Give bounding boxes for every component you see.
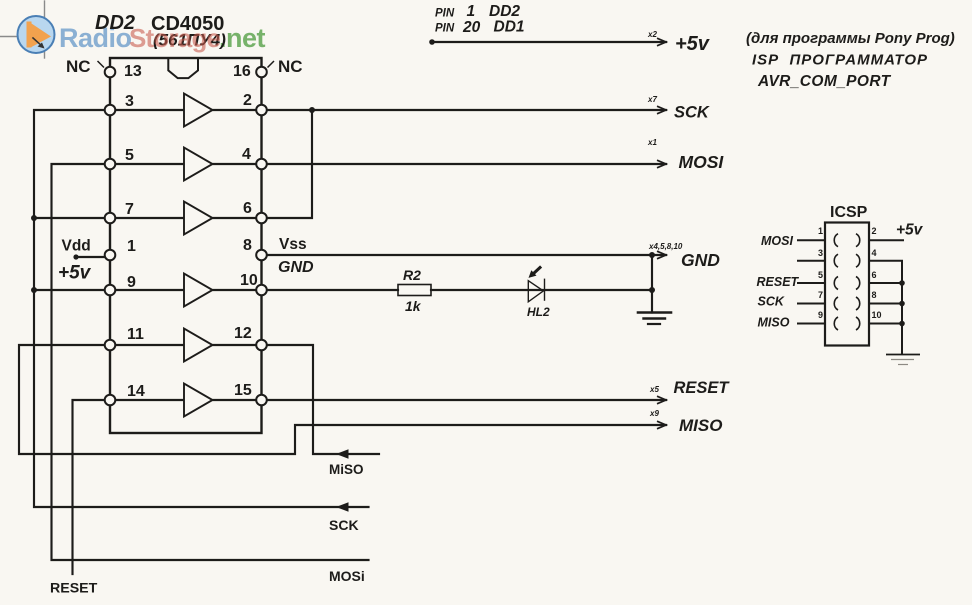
svg-text:5: 5 [125,147,134,164]
logo transistor symbol [0,1,55,58]
arrow MISO stub left [336,449,349,459]
svg-text:ICSP: ICSP [830,204,868,221]
pin 14 circle [105,395,116,406]
svg-text:RESET: RESET [50,581,98,597]
svg-text:NC: NC [278,57,303,76]
svg-text:DD1: DD1 [494,19,525,36]
wire Vdd stub [76,256,110,258]
ICSP stub MOSI pin1 [797,239,825,241]
wire pin11 to MISO lower run [19,345,666,454]
svg-text:+5v: +5v [896,222,924,239]
pin 9 circle [105,285,116,296]
svg-text:x2: x2 [647,30,657,39]
pin 11 circle [105,340,116,351]
svg-text:8: 8 [872,290,877,300]
ICSP wire pins 4,6,8,10 to ground [869,261,902,355]
ICSP junction pin10 [899,321,905,327]
svg-text:4: 4 [872,248,877,258]
ICSP connector J1 [797,204,920,365]
svg-text:20: 20 [462,19,481,36]
ICSP pin 6 contact [856,277,860,290]
svg-text:NC: NC [66,57,91,76]
wire pins 9-10 row [110,289,262,291]
ICSP stub MISO pin9 [797,323,825,325]
svg-text:MOSI: MOSI [761,234,793,248]
svg-text:1: 1 [127,238,136,255]
pin 8 circle [256,250,267,261]
ICSP stub +5v pin2 [869,239,904,241]
svg-text:3: 3 [125,93,134,110]
pin 2 circle [256,105,267,116]
wire resistor to LED [431,289,652,291]
IC U1 CD4050 chip body [110,58,262,433]
wire pin8 to GND arrow [262,254,667,256]
ICSP stub SCK pin7 [797,303,825,305]
wire +5v top [432,41,666,43]
pin 10 circle [256,285,267,296]
svg-text:9: 9 [127,274,136,291]
svg-text:1: 1 [467,3,476,20]
wire pins 11-12 row [110,344,262,346]
svg-text:6: 6 [872,270,877,280]
arrow SCK bottom left [336,502,349,512]
arrow +5v [657,38,666,46]
svg-text:5: 5 [818,270,823,280]
wire pin3 to SCK vertical [34,110,369,507]
buffer 11-12 [184,329,213,362]
ICSP junction pin8 [899,301,905,307]
svg-text:2: 2 [872,226,877,236]
wire pin10 to resistor [262,289,399,291]
ground [638,313,671,325]
svg-text:x4,5,8,10: x4,5,8,10 [648,242,683,251]
svg-text:SCK: SCK [674,104,710,122]
wire pins 14-15 row [110,399,262,401]
ICSP junction pin6 [899,280,905,286]
pin 1 circle [105,250,116,261]
svg-text:(для программы Pony Prog): (для программы Pony Prog) [746,30,955,47]
LED HL2 [528,268,544,302]
chip notch [168,59,198,78]
svg-text:HL2: HL2 [527,305,550,319]
svg-text:x7: x7 [647,95,657,104]
svg-text:DD2: DD2 [489,3,520,20]
svg-text:PIN: PIN [435,8,455,20]
arrow GND [657,251,666,259]
buffer 14-15 [184,384,213,417]
svg-text:MOSi: MOSi [329,568,365,584]
buffer 9-10 [184,274,213,307]
svg-text:Vss: Vss [279,236,307,253]
junction pin2 net [309,107,315,113]
ICSP pin 9 contact [834,317,838,330]
pin 16 circle [256,67,267,78]
svg-text:4: 4 [242,146,251,163]
svg-text:ISP ПРОГРАММАТОР: ISP ПРОГРАММАТОР [752,52,928,69]
svg-text:3: 3 [818,248,823,258]
resistor R2 body [398,285,431,296]
NC stub left pin13 [98,61,105,68]
svg-text:GND: GND [278,259,314,276]
svg-text:11: 11 [127,326,144,343]
svg-text:x9: x9 [649,409,659,418]
junction GND net [649,252,655,258]
pin 5 circle [105,159,116,170]
arrow MISO [657,421,666,429]
svg-text:Vdd: Vdd [62,238,91,255]
arrow RESET [657,396,666,404]
wire pin2 to SCK arrow [262,109,667,111]
wire pins 7-6 row [110,217,262,219]
svg-text:8: 8 [243,237,252,254]
svg-text:x1: x1 [647,138,657,147]
ICSP ground [886,354,920,356]
wire gnd vertical [651,255,653,313]
wire pin9 row left [34,289,110,291]
wire pin15 to RESET arrow [262,399,667,401]
svg-text:1: 1 [818,226,823,236]
wire pins 3-2 row [110,109,262,111]
ICSP pin 5 contact [834,277,838,290]
buffer 3-2 [184,94,213,127]
svg-text:SCK: SCK [329,517,359,533]
ICSP pin 1 contact [834,234,838,247]
pin 12 circle [256,340,267,351]
svg-text:GND: GND [681,250,720,270]
wire pin7 stub [34,217,110,219]
svg-text:6: 6 [243,200,252,217]
NC stub right pin16 [268,61,275,68]
wire junction down to pin6 [262,110,313,218]
logo text RadioStorage.net [59,23,266,53]
svg-text:MOSI: MOSI [679,152,725,172]
svg-text:SCK: SCK [758,295,785,309]
ICSP body [825,223,869,346]
svg-text:MiSO: MiSO [329,462,364,477]
svg-text:R2: R2 [403,267,421,283]
chip title DD2 CD4050 (561PU4) [95,12,226,53]
svg-text:7: 7 [818,290,823,300]
junction LED/gnd [649,287,655,293]
svg-text:MISO: MISO [758,316,790,330]
junction pin7/sck [31,215,37,221]
svg-text:RESET: RESET [674,379,731,397]
svg-text:15: 15 [234,382,252,399]
svg-text:RESET: RESET [757,275,800,289]
ICSP pin 8 contact [856,297,860,310]
buffer 7-6 [184,202,213,235]
pin 15 circle [256,395,267,406]
svg-text:+5v: +5v [58,263,92,284]
pin 6 circle [256,213,267,224]
svg-text:12: 12 [234,325,252,342]
svg-text:10: 10 [872,310,882,320]
pin 13 circle [105,67,116,78]
ICSP stub RESET pin5 [797,282,825,284]
svg-text:.net: .net [219,23,266,53]
PIN 1 DD2 note [435,3,525,36]
svg-text:1k: 1k [405,298,422,314]
pin 3 circle [105,105,116,116]
svg-text:+5v: +5v [675,33,711,55]
ICSP pin 2 contact [856,234,860,247]
ICSP stub pin3 [797,260,825,262]
svg-text:7: 7 [125,201,134,218]
wire pin14 to RESET end [73,400,111,574]
wire pins 5-4 row [110,163,262,165]
svg-text:14: 14 [127,383,145,400]
+5v dot [429,39,435,45]
svg-text:PIN: PIN [435,23,455,35]
arrow MOSI [657,160,666,168]
ICSP pin 10 contact [856,317,860,330]
svg-text:AVR_COM_PORT: AVR_COM_PORT [757,73,892,90]
svg-text:13: 13 [124,63,142,80]
svg-text:2: 2 [243,92,252,109]
svg-text:Storage: Storage [129,23,221,53]
arrow SCK [657,106,666,114]
ICSP pin 7 contact [834,297,838,310]
wire pin12 to MISO stub [262,345,380,454]
wire pin4 to MOSI arrow [262,163,667,165]
buffer 5-4 [184,148,213,181]
ICSP pin 4 contact [856,254,860,267]
svg-text:MISO: MISO [679,416,722,435]
svg-text:x5: x5 [649,385,659,394]
junction pin9/sck [31,287,37,293]
svg-text:16: 16 [233,63,251,80]
wire pin5 to MOSI vertical [52,164,369,560]
pin 4 circle [256,159,267,170]
pin 7 circle [105,213,116,224]
ICSP pin 3 contact [834,254,838,267]
svg-text:9: 9 [818,310,823,320]
svg-text:10: 10 [240,272,258,289]
Vdd dot [73,254,78,259]
